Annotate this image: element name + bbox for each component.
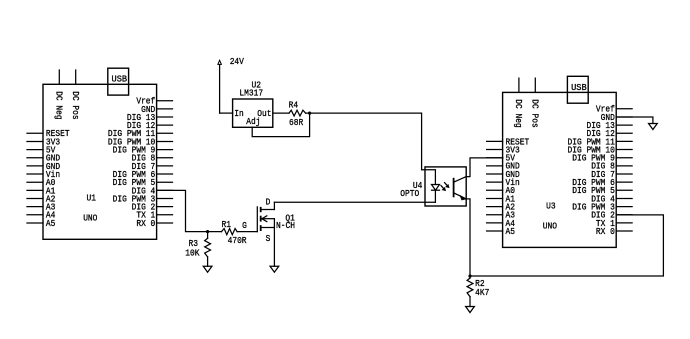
svg-text:S: S [266, 233, 271, 244]
svg-text:68R: 68R [289, 117, 303, 128]
svg-text:R1: R1 [222, 219, 232, 230]
svg-text:470R: 470R [228, 235, 247, 246]
svg-text:N-CH: N-CH [276, 220, 295, 231]
resistor R1 [222, 229, 238, 235]
wire U3 GND to ground [616, 117, 653, 124]
resistor R3 [205, 232, 211, 267]
wire 24V to U2 In [220, 112, 233, 114]
junction R3 [206, 230, 209, 233]
svg-text:U1: U1 [87, 192, 97, 203]
svg-text:24V: 24V [230, 56, 244, 67]
wire Q1 drain to U4 cathode [274, 201, 435, 203]
wire R4 to U4 anode [306, 113, 422, 170]
U4 collector pin to 5V [466, 158, 503, 177]
optocoupler U4 box [425, 167, 466, 206]
wire U1 DIG4 to R1 [157, 190, 222, 231]
svg-text:4K7: 4K7 [475, 287, 489, 298]
wire U2 Out to R4 [273, 112, 289, 114]
svg-text:R4: R4 [289, 100, 299, 111]
svg-text:10K: 10K [185, 247, 199, 258]
24V supply arrow [218, 60, 222, 64]
junction R4/Adj [308, 112, 311, 115]
resistor R4 [289, 110, 306, 116]
svg-text:D: D [266, 196, 271, 207]
svg-text:In: In [234, 108, 243, 119]
Arduino board U1 [27, 68, 173, 239]
wire Q1 source to ground [273, 228, 275, 267]
ground U3 GND [649, 124, 658, 130]
junction emitter/R2/DIG2 [468, 274, 471, 277]
voltage regulator U2 LM317 [233, 99, 273, 127]
resistor R2 [467, 276, 473, 307]
wire R1 to gate [237, 231, 257, 233]
svg-text:Adj: Adj [246, 116, 260, 127]
wire U2 Adj feedback [252, 113, 309, 137]
ground R3 [203, 266, 212, 272]
svg-text:OPTO: OPTO [400, 188, 419, 199]
wire U3 DIG2 to R2 junction [470, 215, 663, 276]
Arduino board U3 [487, 76, 632, 247]
U4 phototransistor [454, 177, 467, 200]
transistor Q1 N-CH MOSFET [257, 202, 274, 231]
U4 LED [432, 185, 440, 191]
U4 light arrows [441, 183, 450, 192]
svg-text:U3: U3 [546, 201, 556, 212]
svg-text:LM317: LM317 [239, 88, 263, 99]
svg-text:G: G [242, 220, 247, 231]
U4 LED anode pin [422, 170, 436, 185]
ground Q1 [270, 266, 279, 272]
ground R2 [466, 307, 475, 313]
U4 LED cathode pin [434, 190, 436, 202]
U4 emitter pin down [466, 199, 470, 276]
